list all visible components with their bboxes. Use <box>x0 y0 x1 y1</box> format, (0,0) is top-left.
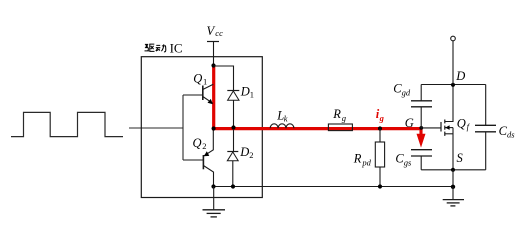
svg-text:IC: IC <box>170 41 183 56</box>
node gate junction <box>419 126 423 130</box>
drain terminal <box>452 41 454 85</box>
diode D1 <box>227 90 239 92</box>
transistor Q1 <box>183 84 213 103</box>
node Q2 ground junction <box>211 184 215 188</box>
resistor Rg <box>328 124 352 131</box>
svg-text:D: D <box>455 69 465 83</box>
inductor Lk <box>270 124 294 128</box>
capacitor Cgs <box>411 149 432 151</box>
wire source to ground <box>452 170 454 187</box>
svg-text:1: 1 <box>203 77 207 87</box>
red arrowhead <box>417 134 426 148</box>
svg-text:Q: Q <box>457 117 466 131</box>
svg-text:G: G <box>405 116 414 130</box>
svg-text:ds: ds <box>507 129 515 139</box>
svg-text:D: D <box>240 84 250 98</box>
svg-text:g: g <box>342 113 346 123</box>
svg-text:1: 1 <box>250 90 254 100</box>
svg-text:D: D <box>239 145 249 159</box>
driver IC box <box>141 57 262 198</box>
svg-text:k: k <box>284 113 288 123</box>
mosfet Qf <box>441 85 453 170</box>
svg-text:R: R <box>353 152 362 166</box>
svg-text:gs: gs <box>404 157 412 167</box>
node Vcc junction <box>211 63 215 67</box>
node Rpd junction on red line <box>378 126 382 130</box>
node source junction <box>451 168 455 172</box>
input square wave <box>11 112 123 136</box>
drain node rail <box>421 84 486 86</box>
capacitor Cgd <box>420 85 422 101</box>
red current path <box>214 66 422 128</box>
resistor Rpd <box>379 129 381 143</box>
wire input to driver box <box>129 127 183 129</box>
node red corner junction <box>212 126 216 130</box>
svg-text:Q: Q <box>193 136 202 150</box>
svg-text:S: S <box>457 151 464 165</box>
wire node to diode D1 <box>214 66 234 90</box>
svg-text:Q: Q <box>193 72 202 86</box>
wire source rail <box>421 169 486 171</box>
node Rpd ground junction <box>378 184 382 188</box>
svg-text:cc: cc <box>215 28 223 38</box>
node D2 ground junction <box>231 184 235 188</box>
svg-text:gd: gd <box>402 87 411 97</box>
transistor Q2 <box>183 129 214 187</box>
ground driver <box>213 187 215 210</box>
svg-text:2: 2 <box>249 150 253 160</box>
ground rail <box>214 186 454 188</box>
svg-text:2: 2 <box>202 141 206 151</box>
wire gate node to MOSFET gate <box>421 127 441 129</box>
diode D2 <box>233 129 235 152</box>
Vcc supply bar <box>207 41 219 43</box>
svg-text:g: g <box>379 113 385 123</box>
node source ground junction <box>451 185 455 189</box>
ground mosfet <box>452 187 454 200</box>
capacitor Cds <box>485 85 487 126</box>
svg-text:R: R <box>332 107 341 121</box>
node drain junction <box>451 83 455 87</box>
label 驱动IC <box>145 44 166 52</box>
node D1-D2 junction on red line <box>231 125 235 129</box>
wire Vcc stem <box>213 42 215 67</box>
wire feedback vertical <box>182 95 184 160</box>
svg-text:pd: pd <box>361 157 371 167</box>
